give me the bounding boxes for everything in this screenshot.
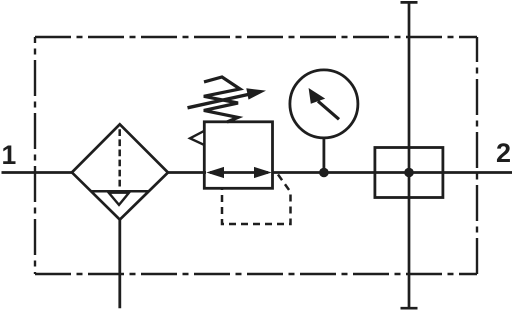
filter condensate level line (91, 190, 150, 193)
filter drain line (118, 220, 121, 309)
shut-off valve body (square) (375, 148, 443, 198)
regulator setting spring (zigzag) (204, 77, 240, 122)
svg-text:2: 2 (496, 138, 511, 168)
regulator relief vent triangle (190, 131, 204, 145)
gauge needle shaft (318, 101, 339, 119)
filter element (dashed center line) (118, 129, 121, 188)
pilot line (dashed feedback) (222, 175, 291, 225)
junction dot in valve center (404, 168, 414, 178)
pressure gauge G1 (circle) (290, 70, 358, 138)
manual actuation stem (vertical line) (408, 2, 411, 308)
regulator R1 body (square) (204, 122, 272, 189)
wire: regulator to outlet (272, 171, 512, 174)
enclosure border bottom edge (dash-dot) (35, 273, 477, 275)
enclosure border top edge (dash-dot) (35, 36, 477, 38)
regulator flow arrowhead left (206, 167, 224, 178)
regulator flow arrowhead right (254, 167, 272, 178)
enclosure border right edge (dash-dot) (476, 37, 478, 274)
junction dot at gauge tap (319, 168, 329, 178)
regulator flow path line (210, 171, 268, 174)
enclosure border left edge (dash-dot) (34, 37, 36, 274)
regulator adjustment arrow shaft (188, 94, 253, 108)
filter F1 body (diamond) (72, 124, 168, 219)
filter water separator triangle (109, 193, 129, 205)
regulator adjustment arrowhead (246, 88, 266, 99)
actuation handle bottom bar (401, 307, 418, 310)
svg-text:1: 1 (2, 140, 17, 170)
wire: gauge stem (322, 138, 325, 173)
wire: filter to regulator (167, 171, 206, 174)
wire: inlet line from port 1 to filter (2, 171, 74, 174)
gauge needle arrowhead (309, 88, 326, 104)
actuation handle top bar (401, 1, 418, 4)
